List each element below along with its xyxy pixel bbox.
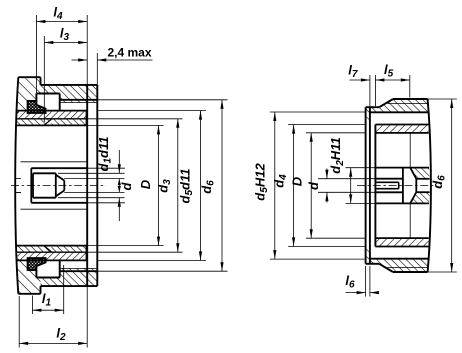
- right sleeve band hatch top: [375, 125, 428, 133]
- left sleeve end face: [86, 111, 88, 126]
- right socket slot end: [398, 182, 400, 185]
- left sleeve bore chamfer notch bottom: [44, 246, 51, 252]
- left thread root sliver hatch bottom: [60, 268, 98, 271]
- right flange band hatch bottom: [366, 247, 370, 264]
- left bore thread crest line: [60, 99, 98, 101]
- left wall center hole line lower: [15, 191, 21, 193]
- dimension d5H12: [274, 112, 276, 259]
- dimension D left: [158, 125, 160, 245]
- extension d1 top: [87, 167, 125, 169]
- extension d3 top: [87, 118, 183, 120]
- dimension d5d11: [200, 111, 202, 261]
- extension d6 top: [97, 99, 227, 101]
- extension d4 top: [288, 124, 366, 126]
- left pin bore d1 line: [31, 167, 86, 169]
- left insert face line: [21, 161, 87, 163]
- svg-text:d5H12: d5H12: [253, 163, 271, 201]
- extension d6 bottom: [97, 270, 227, 272]
- right flange back face: [369, 107, 371, 185]
- dimension l4: [36, 21, 87, 23]
- left band top edge: [41, 84, 98, 86]
- right part centerline: [357, 185, 434, 187]
- right sleeve bore line: [375, 132, 428, 134]
- right shell band hatch bottom: [370, 259, 428, 272]
- left sleeve mid line: [17, 118, 87, 120]
- extension l6 right: [369, 266, 371, 297]
- extension pin bottom: [58, 197, 125, 199]
- extension line flange back upper: [96, 53, 98, 85]
- dimension d6 right: [451, 99, 453, 272]
- left thread root sliver hatch top: [60, 100, 98, 103]
- extension pin top: [58, 172, 125, 174]
- extension line flange front upper: [86, 15, 88, 85]
- left body top edge: [18, 76, 40, 78]
- svg-text:d5d11: d5d11: [178, 169, 196, 204]
- svg-text:2,4 max: 2,4 max: [108, 46, 152, 60]
- dimension d2H11: [350, 168, 352, 204]
- extension l5 right: [409, 75, 411, 98]
- right flange front face: [365, 107, 367, 185]
- extension l7 right: [369, 75, 371, 107]
- pin nose chamfer: [56, 175, 65, 181]
- extension d1 bottom: [87, 202, 125, 204]
- right boss wedge hatch top: [410, 168, 429, 179]
- right boss bore line: [416, 178, 429, 180]
- right boss wedge hatch bottom: [410, 192, 429, 203]
- extension line l3 left: [43, 36, 45, 122]
- extension d right bottom: [318, 191, 375, 193]
- extension d3 bottom: [87, 251, 183, 253]
- pin left face: [32, 173, 34, 185]
- extension l5 left: [374, 75, 376, 106]
- extension l1 right: [63, 265, 65, 314]
- dimension D right: [310, 133, 312, 238]
- dimension 2,4 max: [72, 59, 88, 61]
- extension d5H12 top: [270, 111, 366, 113]
- left wall center hole line: [15, 178, 21, 180]
- left body lower block hatch: [16, 258, 41, 294]
- left inner sleeve chevron row outer top: [17, 111, 87, 119]
- right socket outer line: [375, 178, 403, 180]
- extension d top: [64, 178, 124, 180]
- right flange top edge: [366, 106, 380, 108]
- left flange back face: [96, 85, 98, 186]
- extension D top: [87, 124, 164, 126]
- left bore thread root line: [60, 102, 98, 104]
- right sleeve band hatch bottom: [375, 238, 428, 246]
- right boss silhouette line: [409, 133, 411, 168]
- extension D right bottom: [306, 237, 366, 239]
- left sleeve bore D line: [17, 124, 87, 126]
- left seal recess left wall: [35, 94, 37, 101]
- extension l1 left: [31, 296, 33, 315]
- extension d5d11 bottom: [97, 259, 206, 261]
- left pin bore face: [30, 168, 32, 185]
- right sleeve front face: [374, 125, 376, 186]
- dimension l2: [19, 342, 87, 344]
- extension d2H11 bottom: [346, 202, 376, 204]
- extension d2H11 top: [346, 167, 376, 169]
- extension l2 right / flange face lower: [86, 286, 88, 347]
- extension d5H12 bottom: [270, 258, 366, 260]
- dimension d inside arrows: [118, 179, 120, 193]
- left part mirrored lower half: [15, 186, 97, 294]
- right thread crest line: [393, 98, 428, 100]
- left flange front face: [86, 85, 88, 186]
- extension d4 bottom: [288, 245, 366, 247]
- dimension l5: [375, 79, 409, 81]
- svg-text:D: D: [138, 179, 153, 189]
- extension d5d11 top: [97, 110, 206, 112]
- right shell chamfer: [379, 99, 393, 107]
- left inner sleeve chevron row inner bottom: [17, 246, 87, 253]
- right part mirrored lower half: [366, 186, 431, 273]
- dimension d3: [177, 119, 179, 252]
- seal upper cross-hatch: [28, 101, 46, 113]
- pin shoulder face: [55, 173, 57, 185]
- left inner sleeve chevron row outer bottom: [17, 252, 87, 260]
- right cavity bore d2 line: [375, 167, 429, 169]
- pin top edge: [33, 172, 56, 174]
- svg-text:D: D: [290, 176, 305, 186]
- left seal recess right wall: [59, 94, 61, 111]
- dimension d1d11 outside arrows: [118, 150, 120, 173]
- right sleeve outer line: [375, 124, 428, 126]
- extension D right top: [306, 132, 366, 134]
- right shell band hatch top: [370, 99, 428, 112]
- dimension l1: [32, 309, 63, 311]
- left sleeve outer surface: [17, 110, 87, 112]
- left seal recess top: [36, 93, 59, 95]
- svg-text:d: d: [119, 181, 134, 190]
- svg-text:d1d11: d1d11: [96, 137, 114, 172]
- right boss chamfer: [410, 168, 416, 179]
- left body step edge: [40, 77, 42, 85]
- pin nose face: [63, 181, 65, 186]
- left part centerline: [11, 185, 106, 187]
- right socket slot line: [375, 181, 398, 183]
- right shell back edge arc: [428, 99, 431, 186]
- left body tube/flange band hatch top: [41, 85, 98, 100]
- left body upper block hatch: [16, 77, 41, 113]
- right boss front face: [415, 179, 417, 186]
- left body outer edge arc: [15, 77, 18, 185]
- left body tube/flange band hatch bottom: [41, 271, 98, 286]
- extension d6 right top: [428, 98, 457, 100]
- extension d right top: [318, 178, 375, 180]
- extension l2 left: [18, 296, 20, 348]
- dimension l7: [350, 79, 370, 81]
- dimension l6: [346, 292, 366, 294]
- left sleeve bore chamfer notch top: [44, 119, 51, 125]
- right flange band hatch top: [366, 107, 370, 124]
- extension l6 left: [365, 266, 367, 297]
- extension line l4 left: [35, 15, 37, 93]
- seal lower cross-hatch: [28, 258, 46, 270]
- right shell bore line: [370, 111, 428, 113]
- extension D bottom: [87, 245, 164, 247]
- left sleeve bore chamfer: [44, 119, 51, 125]
- left inner sleeve chevron row inner top: [17, 119, 87, 126]
- dimension l3: [44, 42, 87, 44]
- dimension d4: [293, 125, 295, 247]
- extension d bottom: [64, 191, 124, 193]
- right socket end face: [402, 168, 404, 186]
- svg-text:d2H11: d2H11: [328, 137, 346, 173]
- right thread root line: [388, 103, 428, 105]
- dimension d right outside arrows: [326, 169, 328, 179]
- extension d6 right bottom: [428, 271, 457, 273]
- svg-text:d: d: [306, 181, 321, 190]
- dimension d6 left: [221, 100, 223, 271]
